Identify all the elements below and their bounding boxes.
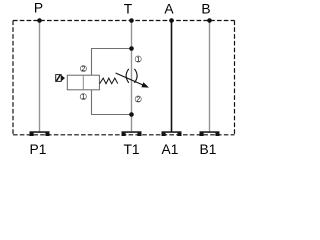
bottom port symbol A1 — [162, 131, 182, 136]
port label T1 — [123, 142, 139, 157]
svg-text:P: P — [34, 1, 43, 16]
junction dot T at border — [129, 18, 134, 23]
svg-text:2: 2 — [136, 97, 140, 104]
bottom port symbol P1 — [30, 131, 50, 136]
svg-text:1: 1 — [81, 94, 85, 101]
sandwich plate dashed enclosure — [13, 21, 235, 135]
port label B1 — [200, 142, 217, 157]
bottom port symbol B1 — [200, 131, 220, 136]
circled port 1 of valve — [80, 93, 87, 101]
svg-text:B: B — [201, 2, 210, 17]
wire A vertical — [171, 21, 173, 132]
bottom port symbol T1 — [122, 131, 142, 136]
svg-text:A1: A1 — [162, 142, 179, 157]
junction dot A at border — [169, 18, 174, 23]
wire T vertical — [131, 21, 133, 132]
svg-text:P1: P1 — [30, 142, 47, 157]
throttle adjustment arrow — [116, 73, 149, 88]
svg-text:1: 1 — [136, 57, 140, 64]
proportional solenoid of V1 — [56, 75, 65, 82]
svg-text:2: 2 — [81, 66, 85, 73]
wire P vertical — [39, 21, 41, 132]
circled port 2 of throttle — [135, 96, 142, 104]
port label P — [34, 1, 43, 16]
valve V1 2/2 body — [67, 75, 99, 90]
circled port 1 of throttle — [135, 56, 142, 64]
adjustable throttle arcs on T line — [126, 69, 137, 83]
svg-text:T1: T1 — [123, 142, 139, 157]
wire bypass loop — [92, 49, 132, 115]
junction dot loop bottom on T — [129, 112, 134, 117]
junction dot P at border — [37, 18, 42, 23]
junction dot loop top on T — [129, 46, 134, 51]
port label T — [124, 2, 133, 17]
port label B — [201, 2, 210, 17]
wire B vertical — [209, 21, 211, 132]
port label A1 — [162, 142, 179, 157]
circled port 2 of valve — [80, 65, 87, 73]
spring of V1 — [100, 78, 118, 84]
svg-text:B1: B1 — [200, 142, 217, 157]
port label A — [164, 2, 174, 17]
junction dot B at border — [207, 18, 212, 23]
svg-text:T: T — [124, 2, 133, 17]
port label P1 — [30, 142, 47, 157]
svg-text:A: A — [164, 2, 174, 17]
